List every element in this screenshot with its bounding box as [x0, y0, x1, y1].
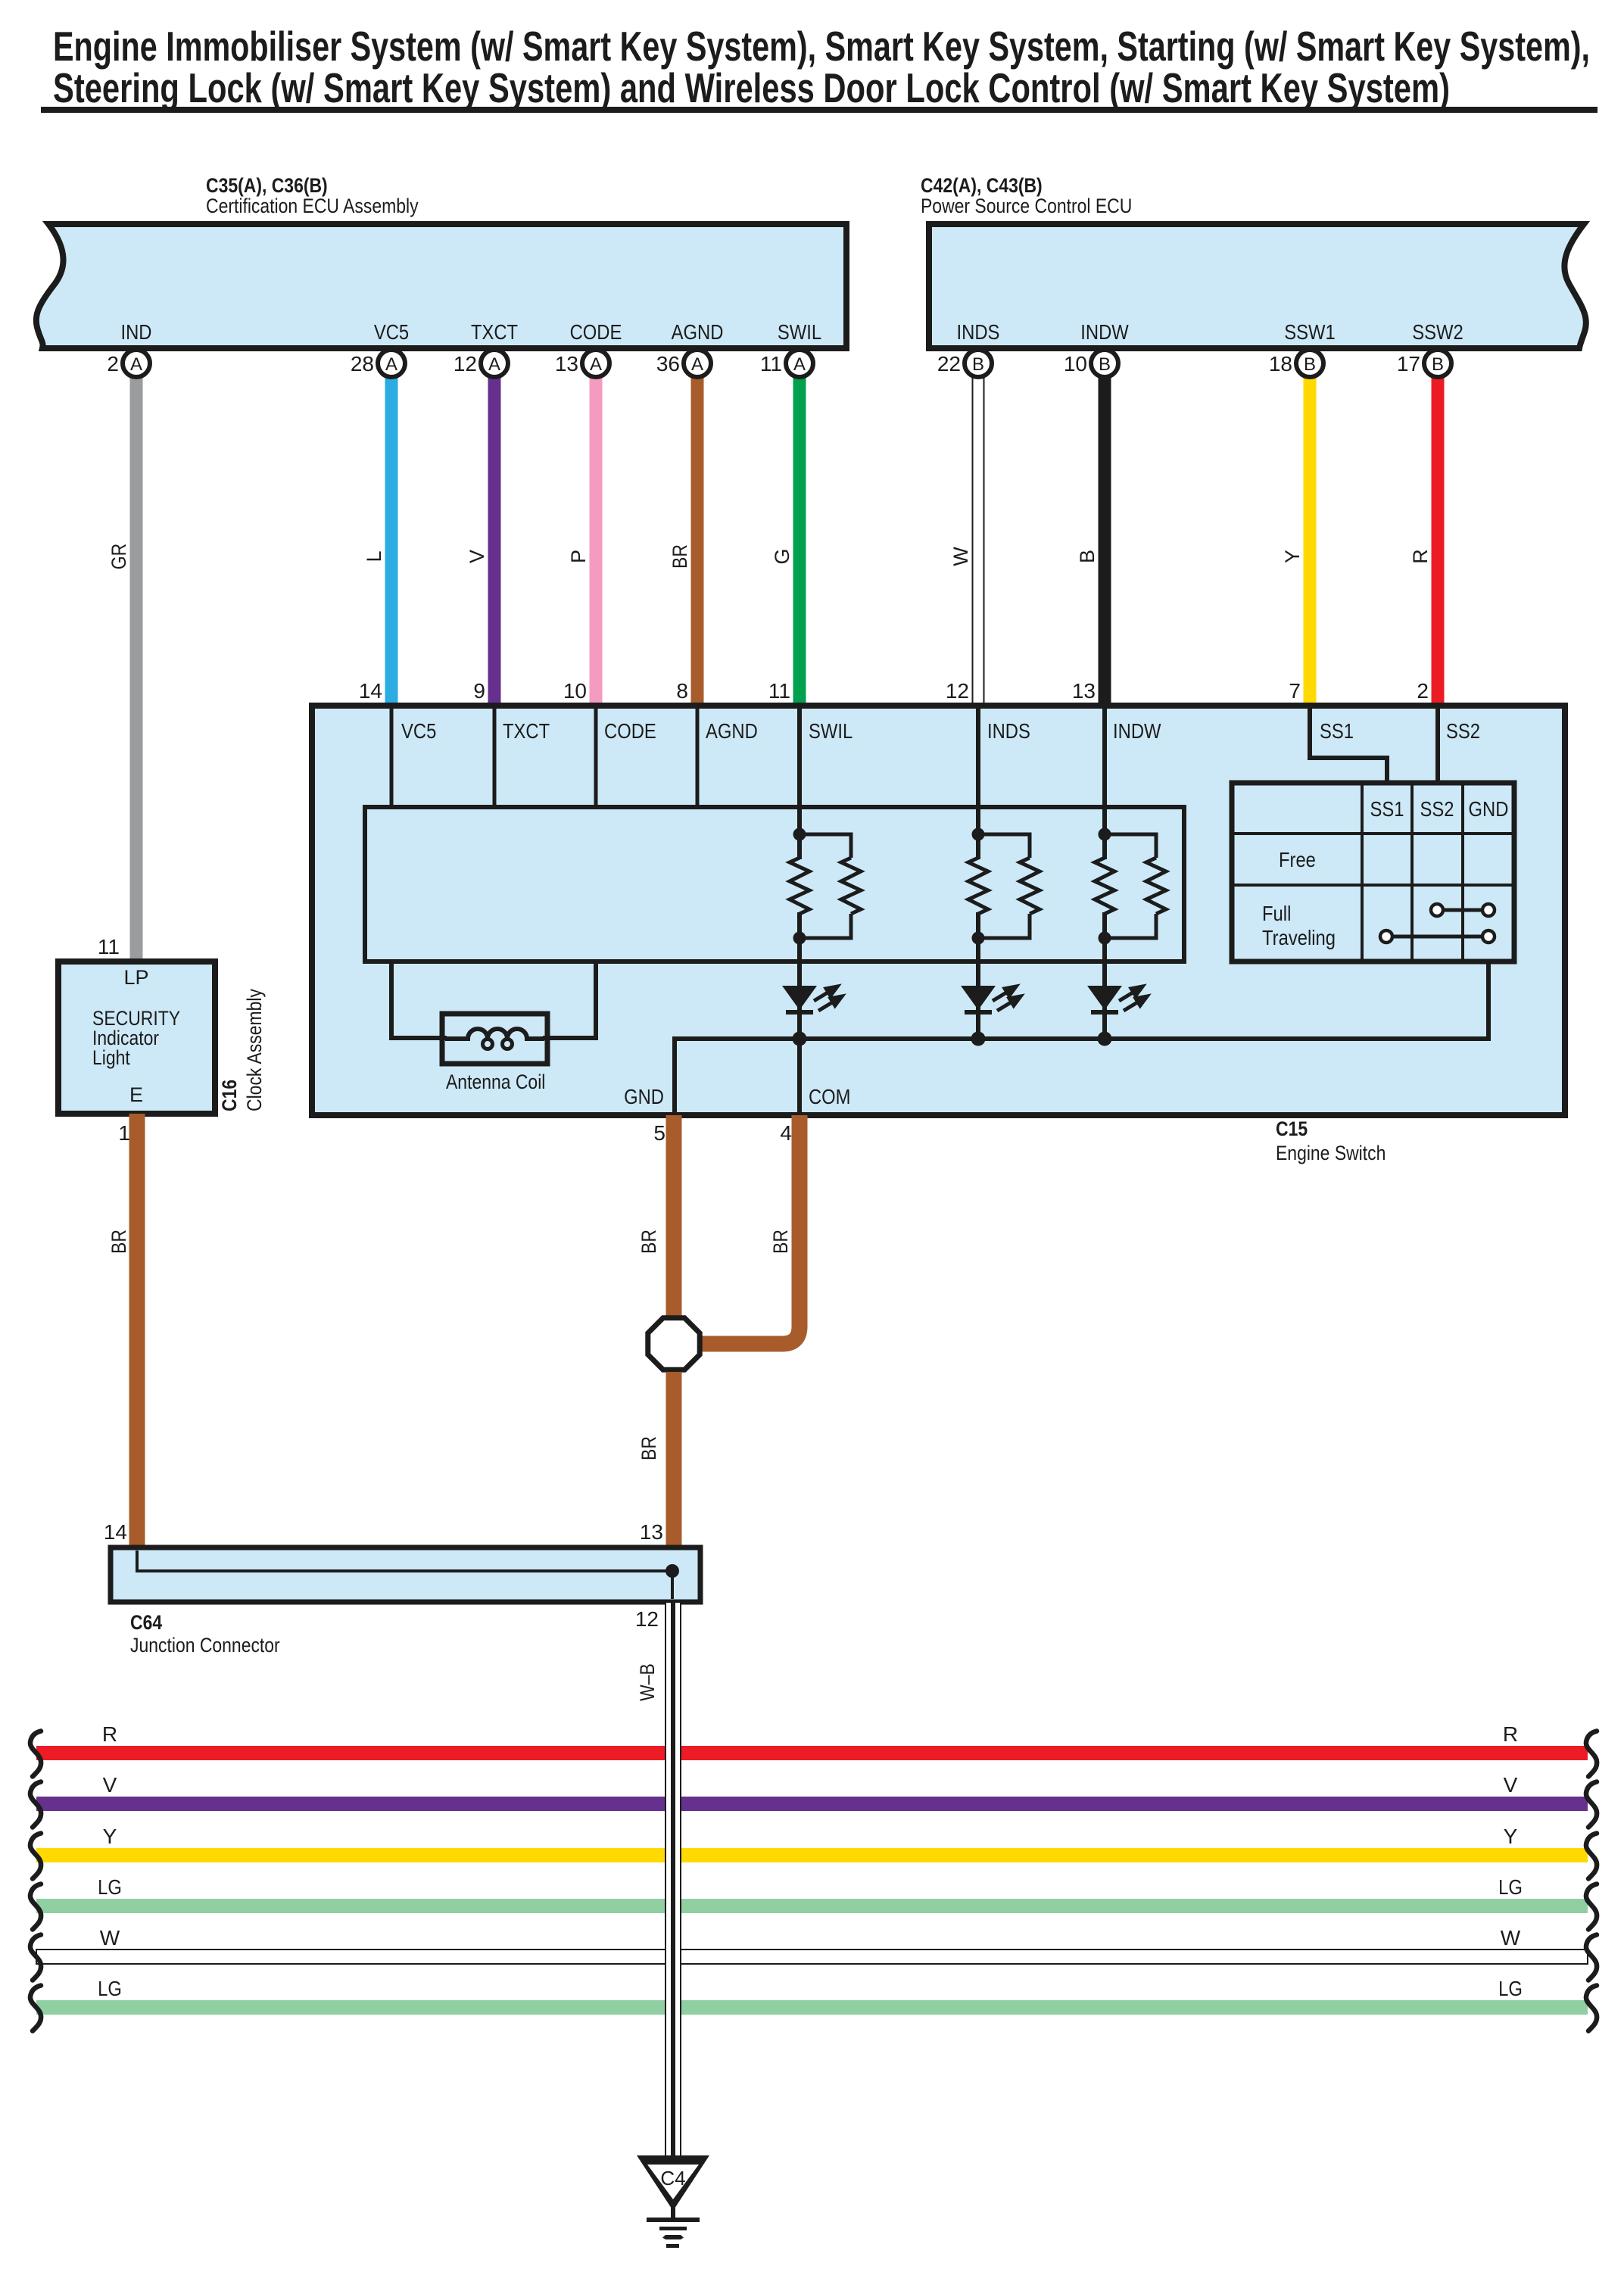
svg-text:C35(A), C36(B): C35(A), C36(B)	[206, 174, 328, 197]
engine switch C15 box	[312, 706, 1565, 1164]
svg-text:A: A	[691, 354, 703, 375]
svg-text:5: 5	[653, 1121, 665, 1145]
c15 inner block rectangle	[365, 807, 1184, 962]
wire P CODE	[567, 374, 603, 706]
svg-text:BR: BR	[637, 1230, 660, 1254]
svg-text:V: V	[1504, 1773, 1518, 1797]
wire Y horizontal	[36, 1848, 1588, 1862]
svg-text:AGND: AGND	[706, 719, 758, 743]
svg-text:TXCT: TXCT	[503, 719, 550, 743]
svg-text:SWIL: SWIL	[778, 320, 821, 344]
svg-text:GR: GR	[108, 544, 130, 569]
svg-text:SWIL: SWIL	[809, 719, 853, 743]
svg-text:Y: Y	[1504, 1825, 1518, 1848]
svg-text:SS2: SS2	[1420, 797, 1454, 821]
pin 28 A	[351, 350, 405, 377]
svg-text:8: 8	[676, 679, 688, 703]
svg-text:CODE: CODE	[604, 719, 656, 743]
bottom harness wires	[36, 1722, 1588, 2015]
svg-text:W: W	[949, 547, 972, 566]
svg-text:SS1: SS1	[1320, 719, 1354, 743]
svg-text:17: 17	[1397, 352, 1420, 376]
svg-text:7: 7	[1289, 679, 1301, 703]
svg-text:18: 18	[1269, 352, 1292, 376]
security indicator light box	[58, 935, 215, 1145]
wire BR AGND	[669, 374, 704, 706]
svg-text:BR: BR	[108, 1230, 130, 1254]
svg-text:IND: IND	[121, 320, 152, 344]
svg-text:B: B	[1099, 354, 1111, 375]
connector C42(A),C43(B) Power Source Control ECU	[921, 174, 1586, 348]
svg-text:13: 13	[1072, 679, 1096, 703]
SS1 jog	[1310, 706, 1387, 783]
svg-text:INDS: INDS	[987, 719, 1030, 743]
wire LG2 horizontal	[36, 2000, 1588, 2015]
title	[41, 23, 1598, 113]
wire V horizontal	[36, 1797, 1588, 1811]
common bus + GND drop	[675, 962, 1488, 1115]
svg-text:36: 36	[656, 352, 680, 376]
svg-text:LG: LG	[1498, 1977, 1523, 2000]
ground C4	[637, 2155, 709, 2248]
pin 12 A	[454, 350, 508, 377]
svg-text:LG: LG	[98, 1977, 122, 2000]
svg-text:A: A	[793, 354, 806, 375]
junction connector C64	[111, 1547, 700, 1657]
svg-text:28: 28	[351, 352, 374, 376]
svg-text:SS1: SS1	[1370, 797, 1404, 821]
wire R horizontal	[36, 1746, 1588, 1760]
c15 cell divider CODE	[594, 706, 598, 807]
svg-text:INDS: INDS	[957, 320, 1000, 344]
svg-text:13: 13	[640, 1520, 663, 1544]
svg-text:BR: BR	[669, 544, 691, 569]
svg-text:GND: GND	[624, 1085, 664, 1108]
svg-text:12: 12	[454, 352, 477, 376]
svg-text:A: A	[130, 354, 142, 375]
svg-text:P: P	[567, 550, 590, 563]
svg-text:14: 14	[104, 1520, 127, 1544]
svg-text:LP: LP	[123, 966, 148, 989]
pin 2 A	[107, 350, 150, 377]
svg-text:C16: C16	[218, 1080, 241, 1111]
svg-text:CODE: CODE	[570, 320, 622, 344]
svg-text:Antenna Coil: Antenna Coil	[446, 1071, 545, 1093]
pin 36 A	[656, 350, 711, 377]
pin 22 B	[937, 350, 992, 377]
wire LG horizontal	[36, 1899, 1588, 1913]
antenna coil	[442, 1014, 547, 1093]
svg-text:B: B	[1076, 550, 1099, 563]
c15 cell divider VC5	[390, 706, 394, 807]
svg-text:LG: LG	[98, 1875, 122, 1899]
c15 cell divider TXCT	[493, 706, 497, 807]
svg-text:SSW2: SSW2	[1412, 320, 1463, 344]
antenna coil connections	[391, 962, 447, 1038]
svg-text:VC5: VC5	[401, 719, 436, 743]
svg-text:AGND: AGND	[672, 320, 724, 344]
svg-text:Y: Y	[1281, 550, 1304, 563]
svg-text:Light: Light	[92, 1046, 130, 1069]
svg-text:Y: Y	[103, 1825, 117, 1848]
wire BR com pin4	[701, 1115, 800, 1344]
wire BR security to C64	[104, 1114, 145, 1547]
wire Y SSW1	[1281, 374, 1317, 706]
svg-text:W–B: W–B	[636, 1663, 659, 1701]
svg-text:VC5: VC5	[374, 320, 409, 344]
svg-text:C4: C4	[660, 2167, 685, 2190]
svg-text:INDW: INDW	[1113, 719, 1161, 743]
pin 13 A	[555, 350, 609, 377]
wire B INDW	[1076, 374, 1111, 706]
svg-text:B: B	[972, 354, 984, 375]
svg-text:11: 11	[760, 352, 782, 376]
svg-text:R: R	[102, 1722, 117, 1746]
svg-text:W: W	[100, 1926, 120, 1950]
svg-text:Certification ECU Assembly: Certification ECU Assembly	[206, 195, 419, 217]
SWIL lamp branch	[782, 706, 861, 1115]
svg-text:A: A	[385, 354, 397, 375]
svg-text:B: B	[1432, 354, 1444, 375]
svg-text:Engine Switch: Engine Switch	[1276, 1142, 1386, 1164]
svg-text:22: 22	[937, 352, 961, 376]
splice octagon	[648, 1318, 700, 1370]
c15 cell divider AGND	[696, 706, 700, 807]
wire G SWIL	[771, 374, 806, 706]
wire W horizontal	[36, 1950, 1588, 1964]
svg-text:Clock Assembly: Clock Assembly	[243, 989, 266, 1111]
svg-text:INDW: INDW	[1080, 320, 1129, 344]
svg-text:G: G	[771, 548, 793, 564]
c15 pin cell labels	[401, 719, 1480, 743]
svg-text:SS2: SS2	[1446, 719, 1480, 743]
svg-text:9: 9	[473, 679, 485, 703]
svg-text:E: E	[129, 1083, 143, 1106]
svg-text:V: V	[103, 1773, 117, 1797]
wire BR splice to C64	[637, 1372, 682, 1547]
svg-text:12: 12	[635, 1607, 659, 1631]
svg-text:Full: Full	[1262, 902, 1291, 925]
svg-text:V: V	[466, 550, 488, 563]
switch table	[1232, 783, 1514, 962]
svg-text:L: L	[363, 550, 385, 562]
pin 10 B	[1064, 350, 1118, 377]
wire V TXCT	[466, 374, 501, 706]
wire R SSW2	[1409, 374, 1445, 706]
wire W INDS	[949, 374, 984, 706]
svg-text:R: R	[1503, 1722, 1518, 1746]
pin 17 B	[1397, 350, 1451, 377]
wire W-B vertical	[636, 1602, 681, 2160]
wire BR gnd pin5	[637, 1115, 682, 1320]
svg-text:10: 10	[563, 679, 587, 703]
contact SS1-GND	[1386, 935, 1488, 939]
svg-text:LG: LG	[1498, 1875, 1523, 1899]
connector C35(A),C36(B) Certification ECU Assembly	[36, 174, 846, 348]
svg-text:C42(A), C43(B): C42(A), C43(B)	[921, 174, 1043, 197]
svg-text:BR: BR	[769, 1230, 792, 1254]
svg-text:Engine Immobiliser System (w/: Engine Immobiliser System (w/ Smart Key …	[53, 23, 1590, 70]
svg-text:11: 11	[98, 935, 120, 958]
C16 clock assembly label	[218, 989, 266, 1111]
svg-text:C64: C64	[130, 1611, 162, 1634]
svg-text:TXCT: TXCT	[471, 320, 518, 344]
svg-text:4: 4	[780, 1121, 792, 1145]
svg-text:2: 2	[1417, 679, 1429, 703]
svg-text:COM: COM	[809, 1085, 851, 1108]
svg-text:12: 12	[946, 679, 969, 703]
pin numbers above C15	[359, 679, 1429, 703]
svg-text:10: 10	[1064, 352, 1087, 376]
svg-text:W: W	[1501, 1926, 1521, 1950]
svg-text:B: B	[1304, 354, 1316, 375]
SS2 drop	[1435, 706, 1440, 783]
svg-text:13: 13	[555, 352, 578, 376]
svg-text:Steering Lock (w/ Smart Key Sy: Steering Lock (w/ Smart Key System) and …	[53, 64, 1450, 111]
svg-text:A: A	[488, 354, 500, 375]
wire GR IND	[108, 374, 143, 962]
svg-text:BR: BR	[637, 1436, 660, 1460]
svg-text:2: 2	[107, 352, 119, 376]
svg-text:C15: C15	[1276, 1117, 1308, 1140]
svg-text:14: 14	[359, 679, 382, 703]
svg-text:1: 1	[118, 1121, 130, 1145]
INDW lamp branch	[1087, 706, 1166, 1046]
svg-text:11: 11	[768, 679, 790, 703]
wire L VC5	[363, 374, 398, 706]
pin 18 B	[1269, 350, 1323, 377]
contact SS2-GND	[1437, 909, 1488, 912]
svg-text:GND: GND	[1469, 797, 1509, 821]
INDS lamp branch	[961, 706, 1040, 1046]
svg-text:Junction Connector: Junction Connector	[130, 1634, 280, 1657]
svg-text:A: A	[590, 354, 602, 375]
svg-text:SSW1: SSW1	[1284, 320, 1336, 344]
svg-text:Free: Free	[1279, 848, 1316, 871]
svg-text:R: R	[1409, 549, 1432, 564]
svg-text:Traveling: Traveling	[1262, 926, 1336, 949]
pin 11 A	[760, 350, 813, 377]
svg-text:Power Source Control ECU: Power Source Control ECU	[921, 195, 1132, 217]
